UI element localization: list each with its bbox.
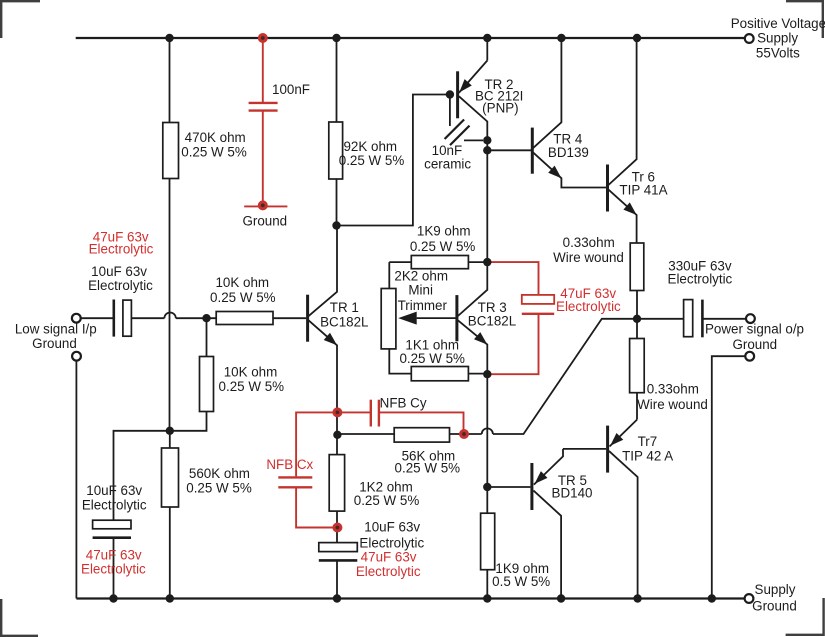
svg-text:BD140: BD140 (552, 486, 593, 501)
svg-text:2K2 ohm: 2K2 ohm (394, 269, 448, 284)
svg-text:10uF 63v: 10uF 63v (86, 483, 142, 498)
svg-text:BC182L: BC182L (320, 315, 368, 330)
svg-text:Positive Voltage: Positive Voltage (731, 16, 825, 31)
svg-text:NFB Cy: NFB Cy (380, 396, 427, 411)
svg-text:0.25 W 5%: 0.25 W 5% (219, 379, 285, 394)
svg-text:Ground: Ground (732, 337, 777, 352)
svg-text:Electrolytic: Electrolytic (88, 278, 153, 293)
svg-text:Electrolytic: Electrolytic (89, 241, 154, 256)
svg-text:0.25 W 5%: 0.25 W 5% (339, 153, 405, 168)
svg-text:Ground: Ground (242, 214, 287, 229)
svg-text:Electrolytic: Electrolytic (668, 271, 733, 286)
svg-text:Electrolytic: Electrolytic (359, 536, 424, 551)
svg-text:0.25 W 5%: 0.25 W 5% (186, 481, 252, 496)
svg-text:Mini: Mini (408, 283, 433, 298)
svg-text:1K9 ohm: 1K9 ohm (417, 224, 471, 239)
svg-text:TR 1: TR 1 (330, 300, 359, 315)
svg-text:0.33ohm: 0.33ohm (563, 235, 615, 250)
svg-text:Trimmer: Trimmer (398, 298, 448, 313)
svg-text:0.5 W 5%: 0.5 W 5% (492, 574, 550, 589)
svg-text:Wire wound: Wire wound (637, 397, 708, 412)
svg-text:NFB Cx: NFB Cx (266, 457, 313, 472)
svg-text:(PNP): (PNP) (482, 101, 518, 116)
svg-text:BC182L: BC182L (468, 313, 516, 328)
svg-text:Power signal o/p: Power signal o/p (705, 322, 804, 337)
svg-text:10K ohm: 10K ohm (224, 365, 278, 380)
svg-text:10uF 63v: 10uF 63v (364, 520, 420, 535)
svg-text:Ground: Ground (32, 336, 77, 351)
svg-text:BD139: BD139 (548, 145, 589, 160)
svg-text:Electrolytic: Electrolytic (82, 498, 147, 513)
svg-text:Low signal I/p: Low signal I/p (15, 322, 97, 337)
svg-text:560K ohm: 560K ohm (189, 466, 250, 481)
svg-text:Electrolytic: Electrolytic (356, 564, 421, 579)
svg-text:Supply: Supply (757, 31, 798, 46)
svg-text:100nF: 100nF (272, 82, 310, 97)
svg-text:92K ohm: 92K ohm (343, 139, 397, 154)
svg-text:47uF 63v: 47uF 63v (86, 547, 142, 562)
svg-text:10uF 63v: 10uF 63v (91, 264, 147, 279)
svg-text:Wire wound: Wire wound (553, 250, 624, 265)
svg-text:0.25 W 5%: 0.25 W 5% (399, 351, 465, 366)
svg-text:0.25 W 5%: 0.25 W 5% (354, 493, 420, 508)
svg-text:TIP 41A: TIP 41A (619, 183, 667, 198)
svg-text:Electrolytic: Electrolytic (81, 562, 146, 577)
svg-text:Supply: Supply (755, 582, 796, 597)
svg-text:0.25 W 5%: 0.25 W 5% (410, 239, 476, 254)
svg-text:TIP 42 A: TIP 42 A (622, 448, 673, 463)
svg-text:47uF 63v: 47uF 63v (361, 550, 417, 565)
svg-text:0.25 W 5%: 0.25 W 5% (210, 290, 276, 305)
svg-text:ceramic: ceramic (424, 157, 471, 172)
svg-text:Electrolytic: Electrolytic (556, 299, 621, 314)
svg-text:0.25 W 5%: 0.25 W 5% (395, 461, 461, 476)
svg-text:Tr7: Tr7 (638, 434, 658, 449)
svg-text:0.33ohm: 0.33ohm (647, 382, 699, 397)
svg-text:470K ohm: 470K ohm (185, 130, 246, 145)
svg-text:Ground: Ground (752, 599, 797, 614)
svg-text:10K ohm: 10K ohm (215, 275, 269, 290)
svg-text:0.25 W 5%: 0.25 W 5% (181, 145, 247, 160)
svg-text:55Volts: 55Volts (756, 45, 800, 60)
